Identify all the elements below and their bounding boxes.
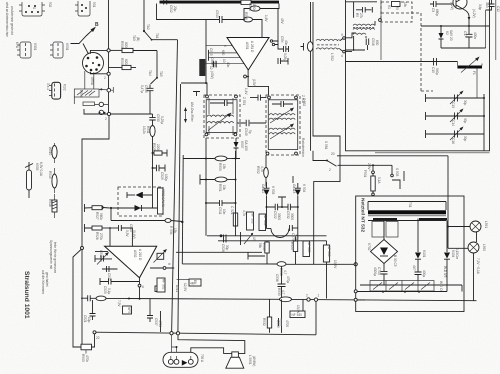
node at amp supply <box>205 82 207 84</box>
svg-text:geschaltet: geschaltet <box>45 272 49 287</box>
svg-text:400µ: 400µ <box>422 270 426 277</box>
svg-text:(Ø 8W): (Ø 8W) <box>252 356 256 366</box>
svg-text:GA 100: GA 100 <box>244 140 248 151</box>
speaker terminal strip <box>370 281 443 293</box>
svg-text:R508: R508 <box>244 12 248 20</box>
capacitor C509 <box>140 85 154 115</box>
svg-text:C522: C522 <box>273 211 277 219</box>
bridge rectifier V702 <box>367 219 398 267</box>
svg-text:R551: R551 <box>218 184 222 192</box>
boxed labels NF303/NF304 <box>247 212 255 230</box>
diode limiter V502 dashed box <box>118 187 165 216</box>
AM-Osz-Filter arrow <box>184 102 194 123</box>
trimmer above amp2 <box>154 249 168 263</box>
mains transformer <box>368 202 447 238</box>
svg-text:Stralsund 1001: Stralsund 1001 <box>23 271 30 319</box>
wire to head <box>346 61 458 63</box>
svg-text:R550: R550 <box>218 163 222 171</box>
power supply box NT532 <box>356 196 464 312</box>
svg-text:6,3V 0,1A: 6,3V 0,1A <box>39 162 43 177</box>
svg-text:R520: R520 <box>290 242 294 250</box>
svg-text:R515: R515 <box>48 171 52 179</box>
svg-text:R518: R518 <box>248 3 252 11</box>
svg-text:C13: C13 <box>451 102 455 108</box>
RC branch below bus <box>262 299 289 333</box>
svg-text:150k: 150k <box>252 4 256 11</box>
trimmer row 3 <box>426 127 485 145</box>
svg-text:4000µ: 4000µ <box>373 267 377 276</box>
svg-text:(10V): (10V) <box>252 79 256 87</box>
svg-text:680p: 680p <box>435 9 439 16</box>
svg-text:C16: C16 <box>451 138 455 144</box>
dashed tuner box <box>381 13 433 91</box>
svg-text:R516: R516 <box>48 199 52 207</box>
svg-text:C521: C521 <box>83 315 87 323</box>
amp left pin stubs <box>200 45 244 70</box>
svg-text:0,15Cm: 0,15Cm <box>455 248 459 260</box>
svg-text:1,6V: 1,6V <box>264 15 268 22</box>
svg-text:C14: C14 <box>451 120 455 126</box>
svg-text:Ga112: Ga112 <box>261 184 265 194</box>
svg-text:56k: 56k <box>258 243 262 249</box>
top supply bar <box>160 1 280 4</box>
resistor R509 <box>109 58 137 70</box>
input row C513 / R508b <box>206 10 268 38</box>
svg-text:Z 551: Z 551 <box>242 97 246 105</box>
svg-text:A501: A501 <box>245 42 249 50</box>
boxed label NF504 <box>177 279 201 286</box>
svg-text:600: 600 <box>221 50 225 56</box>
strip bottom line <box>354 290 357 293</box>
svg-text:C532: C532 <box>286 211 290 219</box>
svg-text:V 504: V 504 <box>302 184 306 193</box>
heater bus <box>182 263 277 265</box>
svg-text:W.D 0/5: W.D 0/5 <box>443 266 447 278</box>
svg-text:A502: A502 <box>133 250 137 258</box>
svg-text:NF 306: NF 306 <box>327 246 331 257</box>
connector S501 <box>75 1 96 16</box>
svg-text:L592: L592 <box>482 244 486 251</box>
lamp V591 <box>447 156 488 249</box>
svg-text:40n: 40n <box>284 40 288 46</box>
switch TA2/TA1 <box>132 0 178 41</box>
svg-text:0,3V: 0,3V <box>125 230 129 237</box>
svg-text:V702: V702 <box>367 243 371 251</box>
svg-text:3,6p: 3,6p <box>478 4 482 10</box>
svg-text:U5: U5 <box>252 237 256 241</box>
svg-text:F501: F501 <box>363 170 367 177</box>
svg-text:(12V): (12V) <box>450 2 454 10</box>
diode Ga112 <box>261 182 275 229</box>
svg-text:4: 4 <box>341 54 343 58</box>
boxed label NF305 <box>303 241 311 257</box>
svg-text:4M: 4M <box>190 282 195 286</box>
svg-text:4700: 4700 <box>158 320 162 327</box>
svg-text:4,7k: 4,7k <box>242 210 246 216</box>
svg-text:30p: 30p <box>463 100 467 106</box>
svg-text:30p: 30p <box>225 245 229 251</box>
svg-text:NF 305: NF 305 <box>307 242 311 253</box>
svg-text:470µ: 470µ <box>286 276 290 283</box>
svg-text:2: 2 <box>105 117 107 121</box>
node B arrow <box>71 22 100 54</box>
svg-text:HF 302: HF 302 <box>162 279 166 290</box>
big RF box <box>346 0 490 151</box>
svg-text:10n: 10n <box>222 209 226 215</box>
svg-text:R525: R525 <box>152 143 156 151</box>
tuning pot R558 <box>74 87 113 104</box>
resistor R508 <box>107 41 157 53</box>
svg-text:B 30 C5: B 30 C5 <box>393 255 397 267</box>
capacitor C528 <box>221 235 229 252</box>
ground stub <box>248 253 265 260</box>
svg-text:Spannungswerte mit: Spannungswerte mit <box>49 240 53 269</box>
tube V1 indicator <box>46 82 67 99</box>
pilot lamp V505 <box>25 162 43 198</box>
svg-text:V104: V104 <box>451 250 455 258</box>
svg-text:15k: 15k <box>173 228 177 234</box>
svg-text:220k: 220k <box>156 144 160 151</box>
svg-text:T01: T01 <box>408 202 412 208</box>
svg-text:A 210 D: A 210 D <box>138 249 142 261</box>
svg-text:820k: 820k <box>124 42 128 49</box>
capacitor C529 <box>152 165 169 182</box>
svg-text:Z 552: Z 552 <box>302 98 306 106</box>
svg-text:NF 540: NF 540 <box>292 313 303 317</box>
trimmer row 1 <box>426 91 486 109</box>
switch S581 <box>324 141 448 172</box>
boxed label NF300 <box>259 214 267 231</box>
bottom bus 2 <box>95 332 317 335</box>
svg-text:V505: V505 <box>35 163 39 171</box>
svg-text:TA4: TA4 <box>148 70 152 76</box>
svg-text:A 281 D: A 281 D <box>250 41 254 53</box>
svg-text:0,1A: 0,1A <box>377 177 381 184</box>
svg-text:C519: C519 <box>99 250 103 258</box>
svg-text:Netzteil NT 532: Netzteil NT 532 <box>360 198 366 232</box>
svg-text:8: 8 <box>167 263 171 265</box>
svg-text:C15: C15 <box>431 67 435 73</box>
svg-text:4,7: 4,7 <box>283 270 287 275</box>
svg-text:V507: V507 <box>240 141 244 149</box>
long rails center <box>172 40 178 333</box>
node row y26 <box>421 25 490 27</box>
output tube V905 oval <box>163 335 204 368</box>
svg-text:L 5901: L 5901 <box>248 355 252 365</box>
svg-text:502: 502 <box>48 2 52 8</box>
svg-text:L 502: L 502 <box>330 53 334 61</box>
resistor R551 row <box>200 175 237 192</box>
svg-text:SAY 20: SAY 20 <box>449 30 453 41</box>
main bottom bus <box>81 288 477 302</box>
svg-text:0,25µ: 0,25µ <box>160 116 164 124</box>
left rail <box>108 0 110 114</box>
svg-text:4700: 4700 <box>285 320 289 327</box>
trimmer row 2 <box>426 109 486 127</box>
wire y114 with terminals <box>84 109 153 114</box>
trimmer cap C519 row <box>95 250 112 265</box>
svg-text:V2: V2 <box>445 31 449 35</box>
svg-text:C537: C537 <box>154 318 158 326</box>
svg-text:13,2k: 13,2k <box>142 126 146 134</box>
svg-text:C528: C528 <box>221 244 225 252</box>
capacitor C17 <box>463 26 477 48</box>
svg-text:7,2V ~0,1A: 7,2V ~0,1A <box>476 258 480 275</box>
svg-text:V 503: V 503 <box>271 186 275 195</box>
svg-text:7,5V: 7,5V <box>117 300 121 307</box>
diode V101 <box>412 219 426 281</box>
svg-text:R558: R558 <box>79 90 83 98</box>
svg-text:C517: C517 <box>107 273 111 281</box>
boxed label NF502 <box>157 278 166 292</box>
diode Ga113 <box>292 183 306 241</box>
svg-text:(0,4V): (0,4V) <box>132 230 136 239</box>
svg-text:C530: C530 <box>156 114 160 122</box>
svg-text:C3: C3 <box>431 8 435 12</box>
cap C536 470µ above bus <box>275 266 290 297</box>
svg-text:TA2: TA2 <box>146 24 150 30</box>
svg-text:C513: C513 <box>215 10 219 18</box>
amp2 input stub <box>95 251 108 253</box>
cap C537 <box>147 299 162 332</box>
svg-text:5p: 5p <box>248 130 252 134</box>
op-amp U A501 A281D <box>227 38 269 71</box>
IF transformer Z552 (dashed can) <box>266 95 306 155</box>
svg-text:C511: C511 <box>218 207 222 215</box>
apex down <box>139 278 141 299</box>
diode V507 <box>232 138 248 159</box>
cap C517 stub <box>102 266 118 281</box>
resistor R526 <box>85 224 134 246</box>
svg-text:A511: A511 <box>175 285 179 292</box>
svg-text:100p: 100p <box>164 174 168 181</box>
oscillator coil L501 <box>301 33 357 104</box>
svg-text:V301: V301 <box>33 43 37 51</box>
svg-text:40n: 40n <box>226 62 230 68</box>
resistor R520 <box>290 237 298 265</box>
svg-text:3Ao: 3Ao <box>485 2 489 8</box>
svg-text:45V: 45V <box>280 18 284 25</box>
switch S503 <box>391 165 404 189</box>
svg-text:(4,2V): (4,2V) <box>472 9 476 18</box>
ferrite antenna V301 <box>15 42 37 58</box>
switch block <box>83 102 109 115</box>
svg-text:12: 12 <box>209 66 213 70</box>
svg-text:NF 300: NF 300 <box>263 215 267 226</box>
AF line down <box>111 208 165 221</box>
amp2 right pin <box>150 263 174 269</box>
ratio detector column resistor 4,7k <box>256 155 268 187</box>
amp right pins <box>270 9 288 65</box>
svg-text:L591: L591 <box>484 221 488 228</box>
connector S502 <box>19 2 52 16</box>
svg-text:S 581: S 581 <box>324 141 328 150</box>
svg-text:6: 6 <box>223 45 227 47</box>
svg-text:4V7: 4V7 <box>412 265 416 271</box>
NF540 branch <box>290 299 305 317</box>
svg-text:400n: 400n <box>473 32 477 39</box>
svg-text:Ratiodetektor: Ratiodetektor <box>301 138 305 158</box>
diode V2 SAY20 <box>439 26 454 48</box>
svg-text:1,4V: 1,4V <box>244 88 248 95</box>
transistor T1 <box>450 0 476 26</box>
svg-text:C575: C575 <box>291 233 295 241</box>
svg-text:C512: C512 <box>169 5 173 13</box>
ground near filter <box>193 92 200 97</box>
capacitor C512 <box>164 0 177 13</box>
tube V551 socket <box>83 53 104 86</box>
trimmer pot column2 <box>292 176 294 183</box>
resistor R518b <box>258 241 269 264</box>
cap C703 <box>373 264 388 286</box>
svg-text:wird an Antennenbuchse: wird an Antennenbuchse <box>5 2 9 37</box>
svg-text:22: 22 <box>96 336 100 340</box>
svg-text:TA5: TA5 <box>159 71 163 77</box>
input terminal <box>100 206 103 209</box>
switch TA5 <box>148 51 163 85</box>
svg-text:C12: C12 <box>496 6 500 12</box>
sample resistor legend 1 <box>48 143 57 163</box>
svg-text:13,5V: 13,5V <box>296 305 300 314</box>
lamp V592 <box>448 232 486 301</box>
caps C522 C532 row <box>266 204 299 221</box>
svg-text:auf die Klemmen: auf die Klemmen <box>41 270 45 294</box>
wires to speaker <box>178 335 245 354</box>
center tap stub <box>278 197 286 207</box>
470k resistor bottom left <box>73 331 100 363</box>
cap C520 to apex <box>100 278 140 294</box>
svg-text:R530: R530 <box>277 288 281 296</box>
svg-text:2: 2 <box>306 294 308 298</box>
svg-text:U55A: U55A <box>90 77 94 86</box>
svg-text:940p: 940p <box>435 68 439 75</box>
svg-text:(B): (B) <box>136 37 140 41</box>
svg-text:R509: R509 <box>120 58 124 66</box>
amp supply column <box>205 20 207 84</box>
svg-text:V1/2: V1/2 <box>63 84 67 91</box>
boxed label HF301 <box>199 59 216 79</box>
svg-text:Ga113: Ga113 <box>292 184 296 194</box>
svg-text:HF 301: HF 301 <box>203 61 207 72</box>
svg-text:R503: R503 <box>81 354 85 362</box>
svg-text:20µ: 20µ <box>173 6 177 12</box>
svg-text:15k: 15k <box>403 2 407 8</box>
svg-text:560k: 560k <box>99 213 103 220</box>
svg-text:0,47µ: 0,47µ <box>140 85 144 93</box>
svg-text:(40V): (40V) <box>210 71 214 79</box>
svg-text:20: 20 <box>331 152 335 156</box>
svg-text:C539: C539 <box>276 320 280 328</box>
svg-text:0,1µ: 0,1µ <box>107 288 111 294</box>
sample resistor legend 2 <box>48 168 57 193</box>
svg-text:R527: R527 <box>95 212 99 220</box>
resistor R527 <box>85 204 104 220</box>
svg-text:270k: 270k <box>99 233 103 240</box>
svg-text:3300: 3300 <box>290 213 294 220</box>
svg-text:10: 10 <box>222 59 226 63</box>
C530 column <box>142 114 164 187</box>
svg-text:1: 1 <box>318 294 320 298</box>
svg-text:6: 6 <box>142 285 144 289</box>
svg-text:TA1: TA1 <box>155 33 159 39</box>
svg-text:V101: V101 <box>422 250 426 258</box>
wire hop arc <box>267 229 290 238</box>
svg-text:C515: C515 <box>209 48 213 56</box>
svg-text:820k: 820k <box>124 59 128 66</box>
svg-text:R508: R508 <box>120 41 124 49</box>
resistor R525 <box>152 143 168 157</box>
svg-text:K7A: K7A <box>15 42 19 49</box>
diode V104 <box>443 221 459 292</box>
resistor R550 row <box>183 156 236 171</box>
IF transformer Z551 (dashed can) <box>204 95 246 138</box>
svg-text:600: 600 <box>375 40 379 46</box>
fuse F501 <box>363 163 381 196</box>
capacitor C3 <box>430 1 453 16</box>
resistor R6 <box>392 2 401 7</box>
svg-text:10k: 10k <box>222 185 226 191</box>
svg-text:R526: R526 <box>95 232 99 240</box>
detector column <box>235 151 237 236</box>
cap C575 <box>290 225 300 241</box>
svg-text:W510: W510 <box>48 147 52 156</box>
svg-text:12,5V: 12,5V <box>183 283 187 292</box>
wire from bar <box>157 4 207 20</box>
inline resistor on bar <box>241 0 251 4</box>
boxed label NF513 <box>117 300 132 315</box>
svg-text:an Antenne gesteckt: an Antenne gesteckt <box>10 6 14 35</box>
cap C521 <box>83 300 96 323</box>
tube to pot wires <box>90 50 108 73</box>
svg-text:C520: C520 <box>103 286 107 294</box>
svg-text:NF51: NF51 <box>127 307 131 315</box>
capacitor C12 <box>485 0 500 48</box>
capacitor C511 row <box>205 200 237 215</box>
svg-text:AM-Osz-Filter: AM-Osz-Filter <box>190 102 194 123</box>
svg-text:501: 501 <box>92 2 96 8</box>
svg-text:10µ: 10µ <box>87 317 91 323</box>
amplifier module frame bottom <box>207 235 327 237</box>
svg-text:TA3: TA3 <box>132 35 136 41</box>
svg-text:fette Werte gemessen: fette Werte gemessen <box>53 242 57 273</box>
svg-text:13,5V: 13,5V <box>333 260 337 269</box>
svg-text:C5N: C5N <box>280 36 284 43</box>
terminals J1 J2 <box>307 298 310 301</box>
IF column left <box>205 138 207 236</box>
svg-text:V531: V531 <box>65 43 69 51</box>
capacitor C15 <box>431 58 439 75</box>
svg-text:R5: R5 <box>355 13 359 17</box>
svg-text:C17: C17 <box>463 31 467 37</box>
capacitor C549 <box>238 120 267 136</box>
svg-text:B: B <box>95 22 99 28</box>
boxed label NF507 <box>155 286 164 292</box>
svg-text:V1: V1 <box>387 5 391 9</box>
svg-text:2: 2 <box>329 168 331 172</box>
ferrite antenna V531 <box>50 42 69 58</box>
resistor R518 <box>244 3 279 20</box>
svg-text:470k: 470k <box>85 355 89 362</box>
svg-text:3300: 3300 <box>277 213 281 220</box>
svg-text:V502 SAL41: V502 SAL41 <box>161 189 165 207</box>
svg-text:S 503: S 503 <box>395 168 399 177</box>
svg-text:F1: F1 <box>472 71 476 75</box>
svg-text:30p: 30p <box>463 136 467 142</box>
capacitor C516 <box>366 38 379 50</box>
svg-text:C 521: C 521 <box>230 206 234 215</box>
svg-text:C536: C536 <box>275 274 279 282</box>
svg-text:NF 303: NF 303 <box>251 213 255 224</box>
